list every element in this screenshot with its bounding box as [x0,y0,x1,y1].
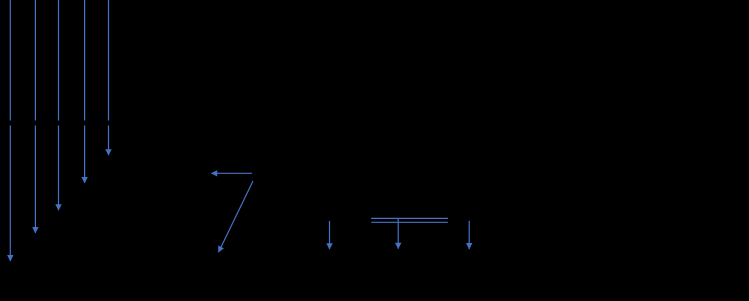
wire arrow A1 lower segment with arrowhead [9,125,11,261]
wire arrow A4 upper segment [84,0,86,121]
wire arrow A3 upper segment [58,0,60,121]
wire arrow A2 lower segment with arrowhead [34,125,36,233]
wire arrow A1 upper segment [9,0,11,121]
wire arrow A5 upper segment [108,0,110,121]
wire arrow C3 down [468,221,470,249]
wire arrow A5 lower segment with arrowhead [108,125,110,155]
wire arrow A2 upper segment [34,0,36,121]
double line upper [371,217,448,219]
leader arrow B2 diagonal pointing down-left [219,181,254,252]
wire arrow A4 lower segment with arrowhead [84,125,86,183]
wire arrow A3 lower segment with arrowhead [58,125,60,210]
wire arrow C1 down [329,221,331,249]
leader arrow B1 pointing left [211,172,252,174]
wire arrow C2 down [397,219,399,249]
double line lower [371,221,448,223]
